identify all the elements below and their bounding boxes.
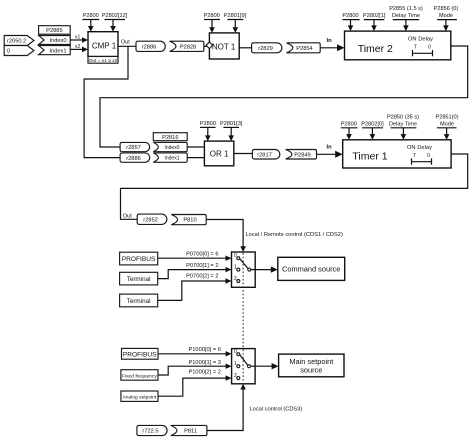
svg-text:r722.5: r722.5 — [142, 429, 158, 435]
svg-text:Timer 1: Timer 1 — [352, 151, 387, 163]
S1 terminal 0 — [234, 253, 240, 260]
svg-text:ON Delay: ON Delay — [408, 36, 433, 42]
wire Terminal 2 to switch input 2, label P0700[2] = 2 — [158, 273, 232, 300]
CMP function strip Out = x1 >= x2 — [88, 57, 118, 64]
wire Fixed frequency to input 1, label P1000[1] = 3 — [158, 360, 232, 375]
wire Index1 to OR 1 — [187, 157, 204, 159]
index input Index0 (CMP) — [39, 36, 71, 45]
input connector P2849 — [286, 150, 317, 160]
svg-text:P2855 (1.5 s): P2855 (1.5 s) — [389, 6, 423, 12]
svg-text:In: In — [327, 38, 333, 44]
param label P2856 (0) Mode (Timer 2) — [434, 6, 459, 31]
svg-text:Delay Time: Delay Time — [389, 122, 417, 128]
source box Terminal (command 2) — [120, 294, 158, 307]
input connector P2854 — [287, 43, 321, 53]
S2 terminal 1 — [234, 361, 240, 368]
wire Terminal 1 to switch input 1, label P0700[1] = 2 — [158, 263, 232, 279]
param label P2800 (Timer 2) — [342, 13, 359, 31]
OR gate OR 1 — [204, 141, 233, 166]
index input Index1 (CMP) — [39, 46, 71, 55]
wire Analog setpoint to input 2, label P1000[2] = 2 — [158, 369, 232, 396]
output connector r2857 — [120, 142, 150, 151]
wire x2 into CMP — [70, 44, 88, 52]
svg-text:x1: x1 — [75, 35, 81, 41]
input connector P810 — [171, 215, 206, 225]
svg-text:Delay Time: Delay Time — [392, 13, 420, 19]
svg-text:P0700[1] = 2: P0700[1] = 2 — [186, 263, 218, 269]
svg-text:P2851(0): P2851(0) — [435, 114, 458, 120]
svg-text:Fixed frequency: Fixed frequency — [122, 373, 157, 379]
param label P2801[3] (OR) — [220, 121, 243, 141]
svg-text:P2801[9]: P2801[9] — [224, 13, 247, 19]
comparator CMP 1 — [88, 32, 118, 57]
svg-text:PROFIBUS: PROFIBUS — [123, 352, 157, 359]
svg-text:CMP 1: CMP 1 — [92, 41, 117, 50]
S1 terminal 2 — [234, 276, 240, 283]
wire In to Timer 2 — [320, 38, 344, 51]
timer block Timer 1 — [343, 140, 451, 168]
svg-text:Local / Remote control (CDS1 /: Local / Remote control (CDS1 / CDS2) — [246, 232, 343, 238]
svg-text:P811: P811 — [184, 429, 197, 435]
svg-text:r2852: r2852 — [143, 217, 158, 223]
svg-text:x2: x2 — [75, 44, 81, 50]
wire OR 1 out — [234, 153, 253, 155]
selector switch S1 (command source) — [232, 252, 256, 287]
wire Timer 1 out loop to r2852 — [121, 154, 468, 219]
param label P2851(0) Mode (Timer 1) — [435, 114, 458, 139]
ON Delay glyph (Timer 1) — [407, 145, 432, 165]
svg-text:r2886: r2886 — [126, 156, 141, 162]
svg-text:P2849: P2849 — [294, 153, 310, 159]
source box Terminal (command 1) — [120, 272, 158, 285]
svg-text:NOT 1: NOT 1 — [212, 43, 236, 52]
wire PROFIBUS to setpoint switch input 0, label P1000[0] = 6 — [158, 347, 232, 356]
source box Fixed frequency — [121, 370, 158, 381]
svg-text:r2857: r2857 — [126, 145, 141, 151]
parameter box P2885 — [39, 26, 71, 35]
svg-text:Command source: Command source — [282, 265, 340, 274]
svg-text:OR 1: OR 1 — [210, 149, 229, 158]
svg-text:Local control (CDS3): Local control (CDS3) — [250, 407, 303, 413]
source box Analog setpoint — [121, 391, 158, 401]
svg-text:P2800: P2800 — [204, 13, 220, 19]
param label P2800 (OR) — [200, 121, 216, 141]
svg-text:P1000[2] = 2: P1000[2] = 2 — [188, 369, 220, 375]
svg-text:Timer 2: Timer 2 — [358, 43, 393, 55]
svg-text:In: In — [327, 145, 333, 151]
output connector r2817 — [252, 150, 279, 160]
svg-text:ON Delay: ON Delay — [407, 145, 432, 151]
svg-text:P0700[2] = 2: P0700[2] = 2 — [186, 273, 218, 279]
output connector r2886 (second) — [120, 153, 150, 162]
index input Index0 (OR) — [153, 142, 187, 151]
svg-text:P2802[12]: P2802[12] — [102, 13, 128, 19]
svg-text:r2829: r2829 — [258, 46, 273, 52]
param label P2800 (Timer 1) — [341, 122, 358, 140]
index input Index1 (OR) — [153, 153, 187, 162]
ON Delay glyph (Timer 2) — [408, 36, 433, 56]
svg-text:0: 0 — [7, 49, 10, 55]
dashed control link through switches — [242, 253, 244, 348]
param label P2855 (1.5 s) Delay Time (Timer 2) — [389, 6, 423, 31]
svg-text:Mode: Mode — [439, 13, 453, 19]
wire P810 to command switch — [206, 220, 246, 253]
svg-text:Out: Out — [123, 213, 133, 219]
command source box — [278, 257, 345, 280]
svg-text:P2800: P2800 — [341, 122, 357, 128]
wire NOT 1 out — [239, 47, 251, 49]
input connector P2828 — [170, 41, 204, 51]
wire Index0 to OR 1 — [187, 146, 204, 148]
svg-text:P2856 (0): P2856 (0) — [434, 6, 459, 12]
svg-text:Index0: Index0 — [49, 38, 66, 44]
svg-text:P2828: P2828 — [180, 44, 196, 50]
param label P2802[1] (Timer 2) — [363, 13, 386, 31]
svg-text:P1000[0] = 6: P1000[0] = 6 — [188, 347, 220, 353]
svg-text:P2800: P2800 — [83, 13, 99, 19]
source box PROFIBUS (command) — [120, 252, 158, 265]
param label P2802[12] (CMP) — [102, 13, 128, 32]
param label P2802[0] (Timer 1) — [361, 122, 384, 140]
input connector r2050.2 — [4, 36, 34, 46]
svg-text:P2885: P2885 — [46, 28, 62, 34]
wire CMP out — [118, 40, 136, 47]
timer block Timer 2 — [345, 31, 451, 60]
svg-text:Out: Out — [121, 40, 131, 46]
S2 switch arm — [240, 355, 251, 368]
wire P811 up to setpoint switch — [207, 384, 246, 431]
label Local control (CDS3) — [250, 407, 303, 413]
svg-text:Index1: Index1 — [164, 156, 179, 162]
svg-text:P2854: P2854 — [296, 46, 312, 52]
svg-text:P2816: P2816 — [162, 135, 178, 141]
svg-text:Main setpoint: Main setpoint — [289, 357, 333, 366]
svg-text:0: 0 — [427, 153, 430, 159]
svg-text:T: T — [413, 153, 416, 159]
inverter NOT 1 — [209, 33, 239, 59]
svg-text:Index1: Index1 — [49, 48, 66, 54]
main setpoint source box — [279, 354, 344, 377]
svg-text:PROFIBUS: PROFIBUS — [122, 256, 156, 263]
svg-text:P810: P810 — [183, 218, 196, 224]
output connector r722.5 — [137, 425, 167, 435]
svg-text:P1000[1] = 3: P1000[1] = 3 — [188, 360, 220, 366]
label Local / Remote control — [246, 232, 343, 238]
svg-text:0: 0 — [428, 45, 431, 51]
S1 switch arm — [240, 259, 251, 271]
S1 terminal 1 — [234, 265, 240, 272]
input connector P811 — [171, 425, 207, 435]
svg-text:P2801[3]: P2801[3] — [220, 121, 243, 127]
svg-text:P2802[0]: P2802[0] — [361, 122, 384, 128]
param label P2800 (CMP) — [82, 13, 99, 32]
svg-text:P2800: P2800 — [200, 121, 216, 127]
svg-text:Terminal: Terminal — [127, 276, 151, 283]
wire x1 into CMP — [70, 35, 88, 43]
svg-text:Analog setpoint: Analog setpoint — [123, 395, 157, 401]
wire CMP out branch down to r2886 (2nd) — [84, 46, 128, 157]
wire S1 output to Command source — [251, 266, 278, 272]
wire P2828 to NOT 1 — [204, 45, 207, 47]
selector switch S2 (main setpoint) — [232, 349, 256, 384]
source box PROFIBUS (setpoint) — [122, 348, 159, 359]
svg-text:r2886: r2886 — [142, 44, 157, 50]
S2 terminal 2 — [234, 373, 240, 380]
param label P2801[9] (NOT) — [224, 13, 247, 33]
svg-text:P2850 (35 s): P2850 (35 s) — [387, 114, 419, 120]
svg-text:Index0: Index0 — [164, 145, 179, 151]
svg-text:T: T — [414, 45, 417, 51]
parameter box P2816 — [153, 133, 187, 141]
param label P2850 (35 s) Delay Time (Timer 1) — [387, 114, 419, 139]
svg-text:P2802[1]: P2802[1] — [363, 13, 386, 19]
svg-text:r2050.2: r2050.2 — [7, 39, 26, 45]
binector input diamond of NOT 1 — [206, 42, 213, 49]
output connector r2829 — [252, 43, 282, 53]
wire S2 output to Main setpoint source — [251, 363, 279, 369]
svg-text:Mode: Mode — [440, 122, 454, 128]
dashed control link inside S2 — [242, 350, 244, 382]
svg-text:r2817: r2817 — [257, 153, 272, 159]
param label P2800 (NOT) — [204, 13, 220, 33]
S2 terminal 0 — [234, 349, 240, 356]
svg-text:P2800: P2800 — [342, 13, 358, 19]
svg-text:Terminal: Terminal — [127, 298, 151, 305]
wire Timer 2 out loop to r2857 — [100, 46, 468, 147]
wire PROFIBUS to switch input 0, label P0700[0] = 6 — [158, 252, 232, 261]
svg-text:P0700[0] = 6: P0700[0] = 6 — [186, 252, 218, 258]
constant 0 input connector — [4, 46, 34, 56]
svg-text:Out = x1 ≥ x2: Out = x1 ≥ x2 — [89, 58, 118, 64]
wire In to Timer 1 — [317, 145, 343, 158]
output connector r2886 — [136, 41, 165, 51]
svg-text:source: source — [300, 366, 322, 375]
output connector r2852 — [137, 214, 167, 224]
